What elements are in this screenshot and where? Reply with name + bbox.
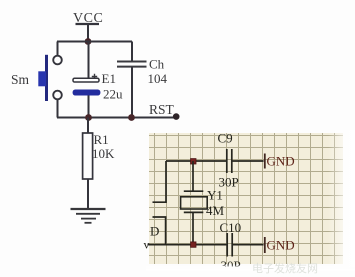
wire top horizontal: [57, 41, 132, 43]
svg-text:22u: 22u: [103, 87, 123, 102]
wire E1 stem: [88, 42, 90, 79]
svg-text:R1: R1: [94, 132, 109, 147]
svg-text:4M: 4M: [206, 203, 225, 218]
wire left L to pin stub: [153, 161, 167, 202]
svg-text:E1: E1: [102, 71, 116, 86]
resistor R1 body: [83, 133, 93, 179]
wire C9 to GND: [233, 160, 264, 162]
wire top (to C9): [166, 160, 226, 162]
wire E1 lower stem: [88, 95, 90, 117]
wire Ch lower stem: [131, 67, 133, 118]
node junction square bottom: [191, 242, 196, 247]
crystal Y1 bottom plate: [184, 211, 204, 213]
node junction square top: [191, 159, 196, 164]
wire R1 lower stem: [87, 179, 89, 209]
tan grid sub-schematic background: [149, 133, 343, 264]
node junction top: [85, 38, 92, 45]
switch Sm bottom terminal: [53, 91, 62, 100]
wire Ch stem: [131, 42, 133, 62]
node junction at Ch: [128, 114, 135, 121]
wire switch upper drop: [57, 42, 59, 57]
svg-text:C9: C9: [218, 131, 233, 146]
power port GND bar (top): [264, 154, 266, 169]
node junction at E1/R1: [85, 114, 92, 121]
svg-text:电子发烧友网: 电子发烧友网: [252, 261, 318, 275]
wire crystal lower stem: [192, 212, 194, 244]
svg-text:10K: 10K: [92, 146, 115, 161]
soft fade bottom edge of pasted grid: [146, 264, 355, 270]
wire crystal upper stem: [192, 161, 194, 191]
capacitor C10 plates: [227, 233, 232, 257]
capacitor E1 top plate: [73, 78, 99, 82]
svg-text:Y1: Y1: [207, 187, 223, 202]
svg-text:104: 104: [148, 71, 168, 86]
svg-text:D: D: [150, 224, 159, 239]
crystal Y1 top plate: [184, 190, 204, 192]
capacitor E1 plus sign: [92, 74, 97, 79]
svg-text:GND: GND: [267, 238, 295, 253]
wire bottom horizontal RST: [57, 117, 176, 119]
wire bottom (to C10): [148, 244, 228, 246]
wire lower pin stub: [153, 217, 166, 245]
svg-text:C10: C10: [220, 220, 242, 235]
capacitor C9 plates: [227, 149, 232, 173]
switch Sm button: [38, 71, 46, 86]
power bar VCC: [76, 23, 100, 25]
node RST end dot: [173, 113, 180, 120]
soft fade right edge of pasted grid: [328, 130, 355, 267]
svg-text:v: v: [144, 238, 150, 252]
capacitor E1 bottom plate: [73, 90, 101, 96]
ground symbol: [71, 209, 106, 223]
svg-text:RST: RST: [149, 102, 175, 117]
switch Sm lever: [45, 55, 48, 101]
svg-text:GND: GND: [267, 153, 295, 168]
capacitor Ch bottom plate: [117, 66, 147, 68]
crystal Y1 body: [181, 197, 208, 209]
wire R1 upper stem: [87, 118, 89, 134]
switch Sm top terminal: [53, 56, 62, 65]
wire C10 to GND: [233, 244, 264, 246]
wire switch lower drop: [57, 99, 59, 118]
wire VCC stem: [87, 24, 89, 42]
capacitor Ch top plate: [117, 61, 147, 63]
svg-text:Ch: Ch: [149, 57, 165, 72]
svg-text:Sm: Sm: [11, 72, 30, 87]
power port GND bar (bottom): [264, 237, 266, 253]
